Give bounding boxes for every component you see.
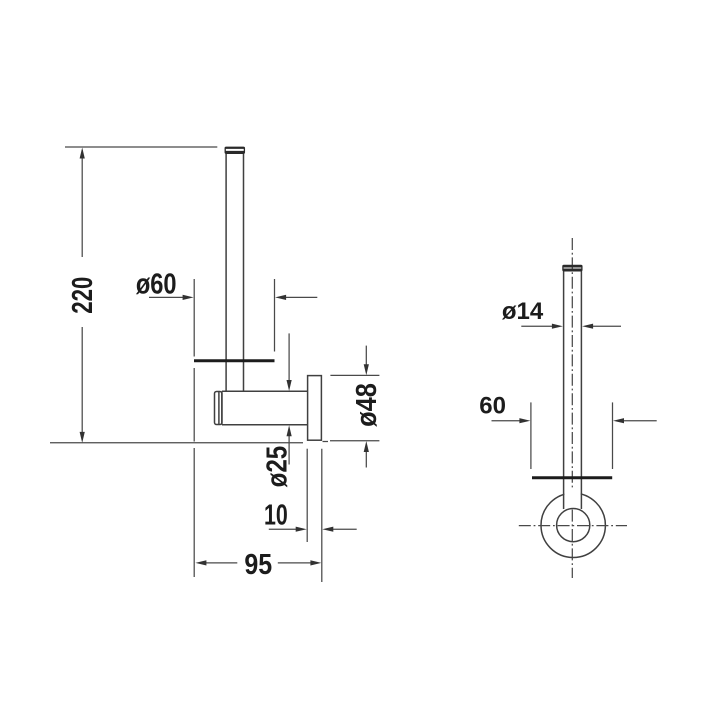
dimension o48 bottom arrow — [365, 452, 367, 468]
roll disc seen edge-on (left view) — [194, 359, 275, 362]
inner circle arm stub o25 (right view) — [557, 508, 590, 541]
rod top cap (left view) — [225, 147, 244, 153]
dimension o25 upper arrow — [288, 333, 290, 381]
wall flange (left view) — [308, 376, 322, 441]
svg-text:220: 220 — [67, 277, 99, 314]
dimension o60 extension line left — [193, 279, 195, 577]
roll disc seen edge-on (right view) — [532, 476, 612, 479]
dimension 220 line — [81, 150, 83, 440]
svg-text:95: 95 — [244, 549, 272, 581]
rod top cap (right view) — [563, 265, 582, 270]
dimension 10 extension lines — [307, 449, 322, 582]
centerline (right view rod axis) — [571, 238, 573, 578]
dimension 10 line and arrows — [269, 528, 357, 530]
horizontal centerline through flange circle — [519, 525, 627, 527]
dimension o60 extension line right — [274, 279, 276, 352]
arm end cap (left view) — [215, 392, 222, 425]
dimension o25 lower arrow — [288, 436, 290, 465]
dimension 220 arrowheads — [80, 148, 85, 443]
svg-text:10: 10 — [264, 500, 288, 532]
white mask where rod passes over flange circle — [564, 488, 580, 509]
dimension o60 line and arrows — [149, 296, 317, 298]
svg-text:ø25: ø25 — [261, 446, 293, 488]
svg-text:ø48: ø48 — [351, 383, 383, 427]
dimension 95 line and arrows — [205, 562, 311, 564]
svg-text:ø14: ø14 — [502, 298, 544, 325]
svg-text:ø60: ø60 — [136, 269, 177, 301]
rod (right view) — [564, 271, 582, 509]
svg-text:60: 60 — [479, 392, 506, 419]
dimension 60 line and arrows (right view) — [492, 420, 657, 422]
dimension o48 top arrow — [365, 346, 367, 365]
dimension o14 line and arrows (right view) — [521, 325, 621, 327]
rod (left side view) — [226, 153, 243, 391]
wall line — [50, 442, 328, 443]
dimension o48 top extension — [330, 374, 379, 376]
dimension 220 extension line (top) — [65, 146, 217, 148]
arm body (left view) — [222, 391, 308, 424]
outer circle wall flange o48 (right view) — [541, 493, 605, 557]
dimension o48 bottom extension — [330, 440, 379, 442]
dimension 60 extension lines (right view) — [531, 402, 613, 469]
